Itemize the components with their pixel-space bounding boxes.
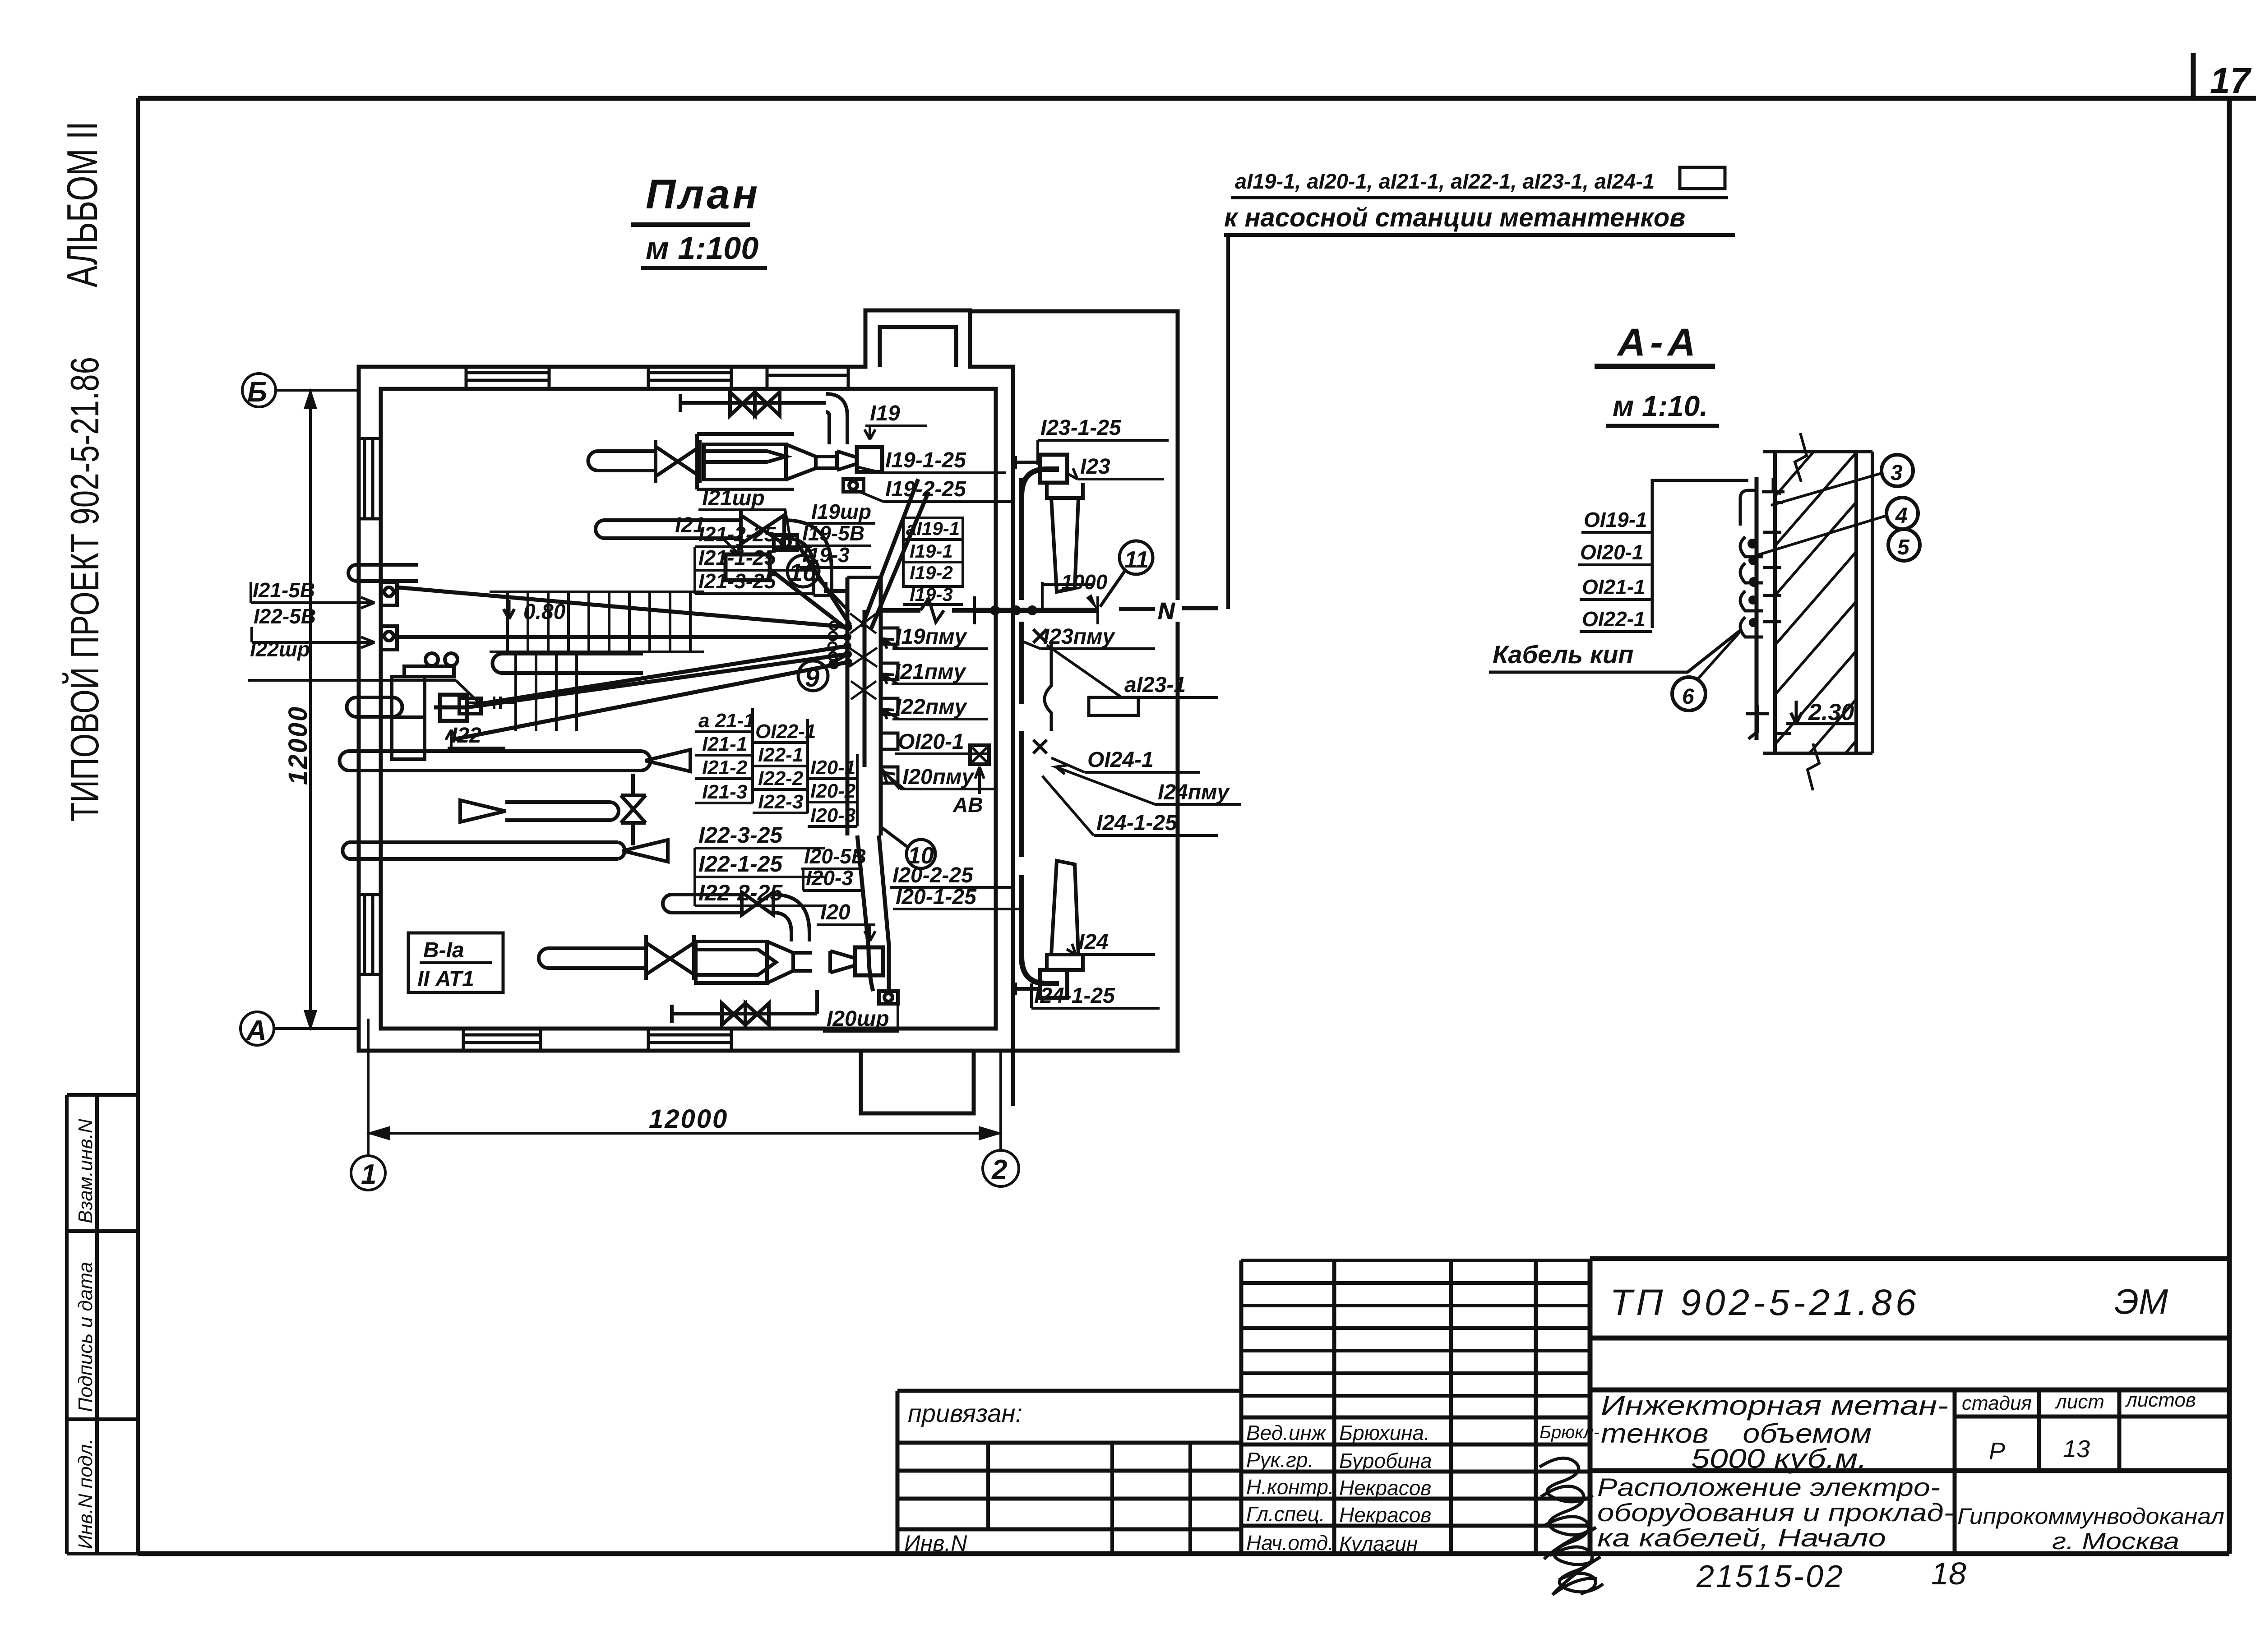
- fan node dots: [843, 623, 852, 666]
- svg-text:аI23-1: аI23-1: [1124, 673, 1186, 697]
- svg-text:I19-5В: I19-5В: [802, 521, 864, 545]
- fan line to mixer: [451, 662, 847, 740]
- svg-text:Р: Р: [1989, 1438, 2005, 1465]
- circle 10 upper: [787, 555, 819, 587]
- axis line A: [274, 1027, 359, 1030]
- names table name rows: [1241, 1417, 1590, 1526]
- circle 9 leader: [826, 655, 846, 667]
- cable drop 123 dashes: [1019, 478, 1024, 559]
- svg-text:Брюкл-: Брюкл-: [1539, 1422, 1600, 1442]
- svg-text:11: 11: [1124, 547, 1149, 573]
- svg-text:к насосной станции метантенков: к насосной станции метантенков: [1224, 203, 1685, 232]
- svg-text:21515-02: 21515-02: [1696, 1559, 1845, 1594]
- wall bottom edge: [1763, 752, 1872, 755]
- svg-text:I22-3-25: I22-3-25: [698, 822, 783, 848]
- destination underline: [1224, 233, 1735, 237]
- valve on 119 inlet: [656, 440, 700, 483]
- svg-text:Н.контр.: Н.контр.: [1246, 1475, 1334, 1499]
- wall right face: [1854, 452, 1858, 753]
- circle 10 lower leader: [882, 828, 908, 847]
- top valve pair: [730, 392, 780, 415]
- wall outer face: [1871, 452, 1874, 753]
- right yard wall top: [970, 311, 1178, 600]
- svg-text:I20-2-25: I20-2-25: [892, 863, 974, 887]
- svg-text:ТИПОВОЙ ПРОЕКТ 902-5-21.86: ТИПОВОЙ ПРОЕКТ 902-5-21.86: [62, 357, 107, 821]
- svg-text:ОI20-1: ОI20-1: [898, 730, 964, 754]
- eductor 119: [704, 444, 816, 480]
- device box 122: [440, 695, 467, 721]
- svg-text:привязан:: привязан:: [908, 1399, 1022, 1427]
- svg-text:Вед.инж: Вед.инж: [1246, 1421, 1327, 1444]
- bottom feed pipe: [539, 948, 646, 968]
- fan line to sv1: [397, 587, 847, 627]
- window bottom 1: [463, 1029, 541, 1051]
- cable dots: [1747, 539, 1759, 627]
- svg-text:I23-1-25: I23-1-25: [1040, 416, 1122, 440]
- circle 9: [798, 661, 828, 691]
- channel top bracket: [1740, 478, 1784, 526]
- svg-text:I22пму: I22пму: [895, 695, 968, 719]
- axis circle 2: [983, 1150, 1019, 1186]
- device box 119: [857, 447, 882, 472]
- stack 121-25: [695, 522, 812, 594]
- svg-text:I21-1: I21-1: [702, 733, 747, 755]
- callout 3: [1882, 455, 1913, 486]
- window top 3: [767, 367, 848, 389]
- border frame bottom: [138, 1551, 2229, 1556]
- fan slant cable b: [871, 492, 929, 629]
- clamp row 4: [1740, 617, 1781, 637]
- callout 5: [1888, 529, 1920, 561]
- clamp row 3: [1740, 591, 1781, 611]
- circle 11: [1119, 541, 1153, 574]
- pipe mid inlet: [596, 520, 741, 538]
- svg-text:аI19-1: аI19-1: [906, 518, 960, 539]
- section scale underline: [1606, 424, 1719, 428]
- section title underline: [1595, 364, 1715, 369]
- svg-text:Б: Б: [247, 377, 267, 408]
- svg-text:Инжекторная метан-: Инжекторная метан-: [1601, 1390, 1948, 1421]
- pipe stub left wall mid: [347, 697, 402, 717]
- cable list box: [1680, 167, 1725, 189]
- svg-text:I21-3: I21-3: [702, 781, 747, 803]
- svg-text:Рук.гр.: Рук.гр.: [1246, 1448, 1313, 1472]
- bottom-right pit outline: [861, 1051, 974, 1113]
- stack 22-25: [695, 822, 825, 906]
- svg-text:Подпись и дата: Подпись и дата: [74, 1262, 97, 1412]
- svg-text:I20: I20: [820, 900, 851, 924]
- 123 bracket: [1047, 483, 1083, 498]
- svg-text:13: 13: [2063, 1435, 2090, 1463]
- svg-text:I19-1: I19-1: [910, 540, 953, 562]
- svg-text:Некрасов: Некрасов: [1339, 1476, 1431, 1500]
- svg-text:ОI22-1: ОI22-1: [1582, 607, 1646, 631]
- pipe mid-left y1470: [493, 654, 643, 673]
- horiz dimension line: [368, 1132, 1001, 1135]
- svg-text:I20пму: I20пму: [902, 765, 975, 789]
- device box 123: [1040, 455, 1067, 483]
- svg-text:5: 5: [1897, 535, 1910, 559]
- fan slant cable a: [862, 479, 918, 627]
- section label bracket: [1652, 480, 1748, 628]
- signature scribbles: [1539, 1458, 1603, 1595]
- svg-text:лист: лист: [2054, 1391, 2104, 1413]
- svg-text:ОI21-1: ОI21-1: [1582, 575, 1646, 599]
- horiz dim arrows: [371, 1128, 998, 1139]
- vert dimension line: [309, 392, 312, 1027]
- 122 armature links: [467, 697, 517, 709]
- svg-text:I22-5В: I22-5В: [254, 605, 316, 628]
- svg-text:I21: I21: [675, 513, 705, 537]
- n-line break mark: [920, 599, 944, 622]
- fan line to 121: [770, 569, 849, 631]
- plan scale underline: [641, 266, 767, 270]
- fan line to shr22: [481, 646, 847, 704]
- cable list underline: [1231, 196, 1728, 199]
- svg-text:I21-2: I21-2: [702, 757, 748, 779]
- axis circle B: [242, 374, 276, 407]
- grate platform: [490, 592, 704, 652]
- svg-text:I20-2: I20-2: [810, 780, 856, 802]
- bottom valve pair: [722, 1003, 769, 1025]
- axis circle 1: [351, 1156, 385, 1190]
- pipe long 1 cone: [645, 750, 690, 771]
- elbow upper-bottom to eductor: [773, 895, 809, 941]
- svg-text:м 1:100: м 1:100: [646, 231, 758, 266]
- svg-text:I20-5В: I20-5В: [804, 844, 866, 868]
- riser lower twin cables: [857, 835, 889, 991]
- elbow from top valve to eductor: [826, 394, 847, 444]
- box 122shr on floor: [459, 698, 481, 714]
- right yard wall bottom: [1013, 622, 1178, 1051]
- svg-text:I22-1-25: I22-1-25: [698, 851, 783, 877]
- anchor mark bottom: [1746, 705, 1791, 739]
- sheet number tick: [2191, 53, 2196, 98]
- svg-text:II АТ1: II АТ1: [417, 967, 474, 991]
- n-line arrow: [1086, 594, 1098, 610]
- svg-text:а 21-1: а 21-1: [698, 710, 755, 732]
- svg-text:ОI19-1: ОI19-1: [1584, 508, 1647, 531]
- svg-text:ЭМ: ЭМ: [2114, 1282, 2168, 1321]
- callout 6: [1672, 677, 1706, 711]
- svg-text:Некрасов: Некрасов: [1339, 1503, 1431, 1527]
- svg-text:I20-1: I20-1: [810, 757, 855, 779]
- 123 wall pins: [1015, 456, 1040, 469]
- svg-text:I19шр: I19шр: [811, 500, 871, 523]
- vent mark box: [408, 933, 503, 992]
- riser top connection: [826, 577, 881, 591]
- svg-text:АЛЬБОМ II: АЛЬБОМ II: [58, 121, 106, 287]
- window top 2: [648, 367, 731, 389]
- x marks cable 123: [1033, 629, 1047, 753]
- svg-text:I21пму: I21пму: [894, 660, 967, 684]
- svg-text:I23: I23: [1080, 455, 1110, 479]
- svg-text:листов: листов: [2125, 1389, 2196, 1411]
- building outer wall: [359, 310, 1013, 1051]
- svg-text:2: 2: [991, 1154, 1007, 1186]
- 124 bracket: [1047, 955, 1083, 970]
- upper bottom pipe with valve: [663, 895, 742, 913]
- svg-text:Брюхина.: Брюхина.: [1339, 1421, 1430, 1444]
- device box 124: [1040, 970, 1067, 998]
- left cone of mid pipe: [460, 800, 505, 822]
- svg-text:I20-3: I20-3: [810, 804, 855, 826]
- building inner wall: [381, 389, 996, 1029]
- svg-text:План: План: [646, 171, 760, 217]
- svg-text:Нач.отд.: Нач.отд.: [1246, 1531, 1334, 1555]
- eductor 119 outer casing: [697, 434, 837, 489]
- 123 panel: [1051, 498, 1078, 592]
- stack 20: [808, 754, 857, 826]
- svg-text:ОI24-1: ОI24-1: [1087, 748, 1154, 772]
- device box 120: [855, 947, 883, 975]
- names table outline: [1241, 1260, 1536, 1554]
- clamp row 1: [1740, 532, 1781, 557]
- wall box sv1: [381, 582, 397, 605]
- vert dim arrows: [305, 392, 315, 1027]
- pipe stub left wall upper: [348, 565, 418, 581]
- wall box sv2: [381, 626, 397, 650]
- svg-text:5000 куб.м.: 5000 куб.м.: [1691, 1444, 1867, 1474]
- svg-text:3: 3: [1891, 461, 1903, 485]
- hatch opening rect: [1089, 697, 1138, 715]
- svg-text:I22-1: I22-1: [758, 744, 803, 766]
- stamp column outer: [65, 1095, 69, 1554]
- svg-text:18: 18: [1931, 1556, 1966, 1591]
- right block outline: [1590, 1259, 2229, 1554]
- svg-text:А-А: А-А: [1617, 321, 1700, 364]
- stair column lines: [516, 652, 577, 731]
- pit inner lip: [1011, 1051, 1015, 1106]
- pipe long 2: [342, 842, 624, 859]
- cable riser duct: [847, 577, 881, 835]
- valve mid: [741, 509, 784, 550]
- svg-text:Взам.инв.N: Взам.инв.N: [74, 1119, 97, 1223]
- mark 2.30: [1786, 701, 1856, 724]
- eductor 120 outlet: [793, 953, 812, 971]
- stadia columns: [1955, 1390, 2229, 1554]
- riser tap boxes: [881, 628, 898, 783]
- circle 10 lower: [906, 840, 935, 868]
- callout 4: [1886, 498, 1918, 529]
- n-line ticks: [975, 596, 1098, 624]
- svg-text:12000: 12000: [283, 706, 313, 785]
- right inner partition: [1045, 641, 1051, 731]
- clamp row 2: [1740, 563, 1781, 583]
- svg-text:I20шр: I20шр: [827, 1007, 889, 1031]
- svg-text:1000: 1000: [1061, 570, 1108, 594]
- pipe long 2 cone: [623, 840, 668, 862]
- svg-text:1: 1: [361, 1159, 376, 1190]
- svg-text:I21-2-25: I21-2-25: [698, 522, 777, 546]
- gland circles: [425, 653, 438, 666]
- svg-text:I19-2-25: I19-2-25: [885, 477, 966, 501]
- wall hatching: [1775, 452, 1856, 753]
- svg-text:I22-2-25: I22-2-25: [698, 880, 783, 905]
- svg-text:Гл.спец.: Гл.спец.: [1246, 1502, 1325, 1526]
- axis circle A: [240, 1012, 274, 1045]
- 124 panel: [1051, 861, 1078, 955]
- svg-text:аI19-1, аI20-1, аI21-1, аI22-1: аI19-1, аI20-1, аI21-1, аI22-1, аI23-1, …: [1235, 169, 1655, 193]
- small rings at fan ends: [828, 622, 838, 668]
- pipe long 1: [340, 751, 651, 771]
- circle 10 upper leader: [818, 578, 849, 612]
- privyazan table verticals: [988, 1443, 1190, 1554]
- svg-text:I19пму: I19пму: [895, 625, 968, 649]
- svg-text:А: А: [245, 1015, 267, 1046]
- svg-text:Инв.N подл.: Инв.N подл.: [74, 1439, 97, 1549]
- fan line to 122: [434, 654, 847, 707]
- cone into 119 box: [837, 451, 857, 470]
- n-line junction dots: [990, 605, 1037, 615]
- valve on upper bottom pipe: [742, 892, 773, 915]
- svg-text:ТП 902-5-21.86: ТП 902-5-21.86: [1610, 1282, 1920, 1323]
- border frame top: [138, 96, 2256, 101]
- svg-text:ОI20-1: ОI20-1: [1580, 540, 1644, 564]
- n-line dashes to riser pipe: [1119, 608, 1218, 609]
- cable channel vertical: [1755, 477, 1759, 740]
- box 120shr: [879, 991, 898, 1004]
- stack a119 box: [903, 518, 963, 605]
- svg-text:В-Iа: В-Iа: [423, 938, 464, 962]
- bottom drain line: [672, 990, 817, 1023]
- privyazan table outline: [897, 1391, 1241, 1554]
- svg-text:I22-3: I22-3: [758, 791, 803, 813]
- svg-text:Гипрокоммунводоканал: Гипрокоммунводоканал: [1957, 1504, 2224, 1529]
- window left 1: [359, 438, 381, 519]
- names table thin rows: [1241, 1260, 1590, 1396]
- fan line to sv2: [397, 635, 847, 639]
- svg-text:I20-1-25: I20-1-25: [896, 885, 977, 909]
- cable drop 124: [1022, 622, 1059, 983]
- svg-text:АВ: АВ: [952, 793, 983, 817]
- svg-text:9: 9: [805, 663, 819, 692]
- border frame right: [2227, 98, 2232, 1554]
- window left 2: [359, 895, 381, 974]
- svg-text:4: 4: [1895, 504, 1908, 528]
- svg-text:г. Москва: г. Москва: [2052, 1528, 2179, 1555]
- wall left face: [1773, 452, 1777, 753]
- svg-text:I19-2: I19-2: [910, 562, 953, 583]
- feeder drop line: [1226, 235, 1230, 609]
- svg-text:I24-1-25: I24-1-25: [1096, 811, 1178, 835]
- svg-text:0.80: 0.80: [523, 600, 566, 624]
- dim 1000 ticks: [1042, 582, 1094, 610]
- svg-text:стадия: стадия: [1962, 1392, 2032, 1414]
- n-line inside: [881, 608, 974, 613]
- svg-text:оборудования и проклад-: оборудования и проклад-: [1597, 1498, 1954, 1527]
- wall break top: [1795, 433, 1807, 482]
- wall top edge: [1763, 450, 1872, 453]
- window bottom 2: [648, 1029, 731, 1051]
- svg-text:Кулагин: Кулагин: [1339, 1532, 1418, 1555]
- cable drop 123: [1022, 469, 1059, 600]
- riser crossing marks: [849, 614, 877, 699]
- svg-text:I21-3-25: I21-3-25: [698, 569, 777, 593]
- plan title underline: [631, 222, 750, 227]
- svg-text:I22шр: I22шр: [250, 637, 310, 661]
- stack a21: [695, 708, 755, 803]
- svg-text:I23пму: I23пму: [1043, 625, 1116, 649]
- window top 1: [466, 367, 549, 389]
- svg-text:Кабель кип: Кабель кип: [1493, 640, 1634, 669]
- fan line to 121shr: [797, 544, 850, 625]
- 124 wall pins: [1015, 983, 1040, 995]
- elbow mid down: [784, 520, 832, 595]
- border frame left: [136, 98, 140, 1554]
- vertical valve X: [621, 774, 646, 845]
- svg-text:I19: I19: [870, 401, 900, 425]
- svg-text:12000: 12000: [649, 1104, 728, 1134]
- device box 121: [726, 554, 770, 580]
- circle 11 leader: [1100, 570, 1125, 607]
- axis line B: [276, 389, 359, 392]
- valve line top: [680, 394, 826, 412]
- pipe upper inlet 119: [588, 451, 656, 471]
- cone into 120 box: [830, 951, 855, 973]
- svg-text:I22-2: I22-2: [758, 767, 804, 789]
- ab arrow: [975, 767, 984, 794]
- svg-text:м 1:10.: м 1:10.: [1613, 390, 1708, 422]
- ab junction box: [970, 745, 989, 764]
- valve bottom feed: [646, 935, 694, 980]
- top-right niche inner: [880, 327, 956, 367]
- axis line 2: [999, 1051, 1002, 1150]
- svg-text:N: N: [1158, 598, 1175, 624]
- pipe mid short with left cone: [505, 802, 619, 820]
- svg-text:I24пму: I24пму: [1158, 780, 1230, 804]
- axis line 1: [367, 1019, 370, 1156]
- svg-text:Расположение электро-: Расположение электро-: [1597, 1473, 1940, 1501]
- svg-text:I21шр: I21шр: [702, 486, 765, 510]
- svg-text:I24-1-25: I24-1-25: [1034, 984, 1115, 1008]
- mixer stack 122: [392, 677, 425, 717]
- svg-text:Буробина: Буробина: [1339, 1449, 1432, 1472]
- svg-text:Инв.N: Инв.N: [904, 1531, 967, 1556]
- svg-text:I21-5В: I21-5В: [253, 578, 315, 602]
- box 119shr: [843, 479, 864, 492]
- svg-text:I20-3: I20-3: [806, 866, 853, 890]
- stack o22: [753, 719, 816, 813]
- box 121shr: [774, 535, 797, 550]
- svg-text:I19-1-25: I19-1-25: [885, 448, 966, 472]
- svg-text:17: 17: [2210, 60, 2251, 101]
- svg-text:6: 6: [1682, 685, 1694, 709]
- riser tap arrows: [883, 639, 904, 789]
- wall break bottom: [1808, 743, 1819, 790]
- svg-text:ка кабелей, Начало: ка кабелей, Начало: [1597, 1523, 1886, 1552]
- svg-text:2.30: 2.30: [1808, 699, 1854, 725]
- svg-text:I24: I24: [1078, 930, 1109, 954]
- eductor 120: [696, 941, 793, 983]
- n-line main: [974, 608, 1098, 613]
